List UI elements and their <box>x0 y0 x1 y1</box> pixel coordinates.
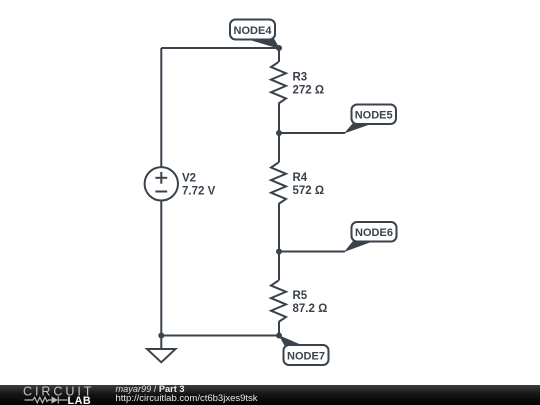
node junction NODE5 <box>276 130 282 136</box>
wire bottom horizontal <box>161 335 279 337</box>
node junction NODE7 <box>276 333 282 339</box>
footer title text <box>116 385 258 404</box>
label R4 value <box>293 172 325 197</box>
wire left vertical (top) <box>160 48 162 167</box>
CircuitLab logo <box>0 385 110 405</box>
resistor R3 <box>271 48 286 133</box>
footer bar <box>0 385 540 405</box>
svg-text:NODE6: NODE6 <box>355 227 393 239</box>
resistor R5 <box>271 252 286 336</box>
node label NODE5 <box>344 105 396 134</box>
svg-text:272 Ω: 272 Ω <box>293 85 325 97</box>
svg-text:R5: R5 <box>293 290 308 302</box>
svg-text:87.2 Ω: 87.2 Ω <box>293 303 328 315</box>
svg-text:NODE7: NODE7 <box>287 351 325 363</box>
node label NODE6 <box>344 222 397 252</box>
label V2 value <box>182 173 216 198</box>
svg-text:572 Ω: 572 Ω <box>293 185 325 197</box>
label R5 value <box>293 290 328 315</box>
node label NODE4 <box>230 20 280 50</box>
wire top horizontal <box>161 47 279 49</box>
svg-text:7.72 V: 7.72 V <box>182 186 216 198</box>
node junction NODE4 <box>276 45 282 51</box>
svg-text:V2: V2 <box>182 173 196 185</box>
node junction NODE6 <box>276 249 282 255</box>
label R3 value <box>293 72 325 97</box>
svg-text:R4: R4 <box>293 172 308 184</box>
wire left vertical (bottom) <box>160 201 162 336</box>
wire node6 stub <box>279 251 345 253</box>
svg-text:LAB: LAB <box>68 394 92 405</box>
resistor R4 <box>271 133 286 252</box>
ground <box>147 336 176 363</box>
svg-text:NODE4: NODE4 <box>234 25 273 37</box>
node label NODE7 <box>279 335 329 365</box>
wire node5 stub <box>279 132 345 134</box>
voltage source V2 <box>145 167 178 200</box>
svg-text:NODE5: NODE5 <box>355 110 393 122</box>
svg-text:R3: R3 <box>293 72 308 84</box>
node junction ground <box>158 333 164 339</box>
